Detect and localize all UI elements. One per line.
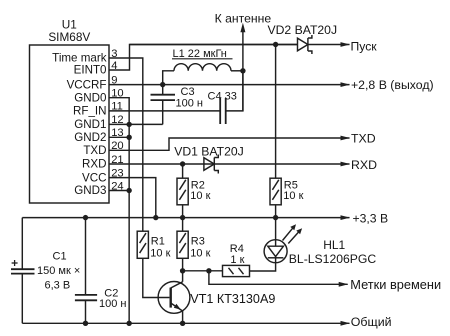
IC U1 SIM68V body: [30, 17, 110, 203]
svg-text:SIM68V: SIM68V: [48, 30, 90, 44]
svg-text:10 к: 10 к: [150, 248, 170, 260]
svg-text:100 н: 100 н: [99, 298, 126, 310]
wire GND0 pin 10 elbow: [109, 98, 129, 125]
wire HL1 cathode to R4: [250, 263, 276, 271]
label R1 value 10 к: [150, 248, 170, 260]
junction emitter on common rail: [180, 321, 185, 326]
svg-text:TXD: TXD: [351, 132, 376, 146]
U1 pin name GND3: [74, 184, 106, 197]
svg-text:10 к: 10 к: [190, 248, 210, 260]
svg-text:BL-LS1206PGC: BL-LS1206PGC: [289, 252, 377, 266]
inductor L1 22 мкГн: [163, 64, 243, 85]
U1 pin number 20: [111, 140, 123, 152]
junction VCC on rail: [153, 215, 158, 220]
junction метки времени tap: [206, 268, 211, 273]
svg-text:100 н: 100 н: [176, 98, 203, 110]
wire R2 bottom to rail: [182, 205, 184, 218]
junction HL1 anode on rail: [273, 215, 278, 220]
junction pin 12 / chain / C3 ground: [126, 122, 131, 127]
svg-text:VT1 КТ3130А9: VT1 КТ3130А9: [190, 292, 275, 306]
junction pin 24 on chain: [126, 188, 131, 193]
label R5: [284, 180, 298, 192]
svg-text:C3: C3: [181, 86, 195, 98]
wire collector node to R4: [183, 270, 223, 272]
polarity plus sign of C1: [12, 260, 18, 266]
junction chain to common rail: [126, 321, 131, 326]
capacitor C3 100 н: [151, 85, 176, 125]
label C1 voltage 6,3 В: [45, 279, 71, 291]
wire ground chain vertical: [128, 124, 130, 323]
svg-text:EINT0: EINT0: [74, 64, 107, 77]
svg-text:TXD: TXD: [83, 144, 106, 157]
U1 pin name GND2: [74, 131, 106, 144]
wire RXD pin 21 line: [109, 163, 350, 165]
label VT1 КТ3130А9: [190, 292, 275, 306]
svg-text:+2,8 В (выход): +2,8 В (выход): [351, 78, 434, 92]
resistor R5: [270, 178, 281, 205]
wire VT1 collector to node: [182, 271, 184, 282]
LED HL1 BL-LS1206PGC: [264, 240, 287, 263]
wire +3,3 В rail: [22, 217, 349, 219]
wire R3 bottom to collector node: [182, 258, 184, 271]
svg-text:L1 22 мкГн: L1 22 мкГн: [173, 48, 227, 60]
net label +2,8 В (выход): [351, 78, 434, 92]
wire TXD pin 20 to output: [109, 138, 350, 150]
label VD1 BAT20J: [174, 144, 244, 158]
junction R2/R3 on rail: [180, 215, 185, 220]
label VD2 BAT20J: [268, 23, 338, 37]
capacitor C1 150 мк 6,3 В: [11, 218, 35, 324]
junction C2 on rail: [83, 215, 88, 220]
VT1 emitter arrow head: [174, 304, 181, 310]
wire VT1 emitter to common rail: [182, 311, 184, 323]
U1 pin name RXD: [82, 158, 106, 171]
svg-text:R1: R1: [151, 235, 165, 247]
label R1: [151, 235, 165, 247]
resistor R4: [223, 265, 250, 276]
label HL1: [323, 238, 345, 252]
U1 pin number 4: [111, 60, 117, 72]
U1 pin number 21: [111, 154, 123, 166]
label R4 value 1 к: [230, 254, 244, 266]
arrow to antenna: [240, 23, 245, 33]
wire HL1 anode from rail: [275, 218, 277, 240]
wire R5 bottom to rail: [275, 205, 277, 218]
label R2 value 10 к: [190, 190, 210, 202]
label C2: [104, 287, 118, 299]
wire GND3 pin 24 stub: [109, 190, 129, 192]
junction L1-right / antenna / C4 node: [240, 68, 245, 73]
wire common rail: [22, 322, 349, 324]
U1 pin number 23: [111, 167, 123, 179]
capacitor C4 33: [220, 71, 243, 124]
wire +2,8 В line from pin 9: [109, 84, 350, 86]
wire VD2 cathode to Пуск arrow: [308, 42, 350, 47]
resistor R1: [137, 231, 148, 258]
svg-text:Метки времени: Метки времени: [350, 277, 441, 292]
label C2 value 100 н: [99, 298, 126, 310]
label R2: [191, 180, 205, 192]
diode VD1 BAT20J: [204, 155, 218, 174]
net label Общий: [351, 315, 392, 329]
U1 pin name GND0: [74, 91, 106, 104]
wire GND1 pin 12 stub: [109, 123, 129, 125]
wire R5 top from VD2 node: [275, 45, 277, 179]
U1 pin name GND1: [74, 118, 106, 131]
resistor R3: [177, 231, 188, 258]
arrow TXD output: [341, 136, 351, 141]
wire R1 bottom to VT1 base: [143, 258, 170, 297]
svg-text:C4 33: C4 33: [208, 91, 237, 103]
label C3 value 100 н: [176, 98, 203, 110]
U1 pin number 9: [111, 74, 117, 86]
net label Метки времени: [350, 277, 441, 292]
label HL1 type BL-LS1206PGC: [289, 252, 377, 266]
label C1: [53, 251, 67, 263]
svg-text:GND3: GND3: [74, 184, 106, 197]
diode VD2 BAT20J: [298, 35, 312, 54]
capacitor C2 100 н: [75, 218, 97, 324]
wire RF_IN pin 11 to C4: [109, 110, 220, 112]
U1 pin number 11: [111, 101, 123, 113]
junction collector node: [180, 268, 185, 273]
label R3 value 10 к: [190, 248, 210, 260]
U1 pin name EINT0: [74, 64, 107, 77]
label R4: [230, 243, 244, 255]
arrow +2,8 В output: [341, 82, 351, 87]
svg-text:10 к: 10 к: [283, 190, 303, 202]
svg-text:К антенне: К антенне: [215, 11, 272, 25]
U1 pin number 12: [111, 114, 123, 126]
wire antenna vertical: [242, 32, 244, 111]
wire EINT0 pin 4 riser and start rail: [109, 45, 297, 71]
label К антенне: [215, 11, 272, 25]
svg-text:150 мк ×: 150 мк ×: [37, 265, 80, 277]
junction EINT0/VD2/R5 node: [273, 42, 278, 47]
junction C2 on common rail: [83, 321, 88, 326]
wire R2 top: [182, 164, 184, 178]
label C3: [181, 86, 195, 98]
U1 pin number 24: [111, 180, 123, 192]
label C4 33: [208, 91, 237, 103]
U1 pin name VCCRF: [67, 78, 107, 91]
resistor R2: [177, 178, 188, 205]
svg-text:HL1: HL1: [323, 238, 345, 252]
label R5 value 10 к: [283, 190, 303, 202]
wire VCC pin 23 to +3,3 В rail: [109, 178, 156, 218]
svg-text:RF_IN: RF_IN: [73, 105, 107, 118]
junction R2 top on RXD line: [180, 161, 185, 166]
svg-text:R3: R3: [191, 235, 205, 247]
wire R3 top from rail: [182, 218, 184, 232]
svg-text:VD1 BAT20J: VD1 BAT20J: [174, 144, 244, 158]
svg-text:GND1: GND1: [74, 118, 106, 131]
svg-text:Пуск: Пуск: [351, 39, 378, 53]
wire Time mark pin 3 to R1: [109, 58, 143, 231]
svg-text:RXD: RXD: [351, 158, 377, 172]
svg-text:VCC: VCC: [82, 171, 106, 184]
U1 pin number 10: [111, 88, 123, 100]
U1 pin name RF_IN: [73, 105, 107, 118]
arrow метки времени output: [339, 282, 349, 287]
svg-text:10 к: 10 к: [190, 190, 210, 202]
arrow +3,3 В input: [341, 215, 351, 220]
arrow Общий output: [341, 321, 351, 326]
junction pin9/L1/C3 node: [160, 82, 165, 87]
arrow RXD output: [341, 162, 351, 167]
transistor VT1 КТ3130А9: [158, 282, 190, 314]
U1 pin name TXD: [83, 144, 106, 157]
svg-text:Общий: Общий: [351, 315, 392, 329]
net label +3,3 В: [353, 211, 389, 225]
wire C3 ground leg to pin 12: [129, 123, 163, 125]
svg-text:C1: C1: [53, 251, 67, 263]
label R3: [191, 235, 205, 247]
U1 pin number 3: [111, 48, 117, 60]
LED HL1 light arrows: [283, 224, 303, 243]
wire GND2 pin 13 stub: [109, 136, 129, 138]
svg-text:1 к: 1 к: [230, 254, 244, 266]
net label TXD: [351, 132, 376, 146]
net label RXD: [351, 158, 377, 172]
wire метки времени: [209, 271, 348, 285]
svg-text:+3,3 В: +3,3 В: [353, 211, 389, 225]
junction pin 13 on chain: [126, 135, 131, 140]
wire top rail to VD2 anode: [130, 44, 298, 46]
label L1 22 мкГн: [172, 48, 233, 60]
U1 pin number 13: [111, 127, 123, 139]
svg-text:RXD: RXD: [82, 158, 106, 171]
U1 pin name Time mark: [52, 52, 107, 65]
U1 pin name VCC: [82, 171, 106, 184]
label C1 value 150 мк ×: [37, 265, 80, 277]
svg-text:GND0: GND0: [74, 91, 106, 104]
svg-text:VD2 BAT20J: VD2 BAT20J: [268, 23, 338, 37]
svg-text:VCCRF: VCCRF: [67, 78, 107, 91]
net label Пуск: [351, 39, 378, 53]
svg-text:GND2: GND2: [74, 131, 106, 144]
svg-text:6,3 В: 6,3 В: [45, 279, 71, 291]
